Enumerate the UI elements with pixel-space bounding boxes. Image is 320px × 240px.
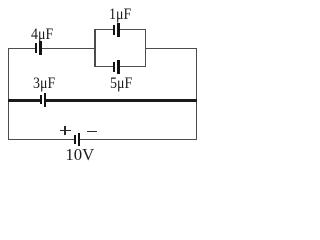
capacitor C1 4uF left plate: [35, 43, 37, 53]
wire box top branch right: [120, 29, 146, 30]
wire bottom segment left of battery: [8, 139, 74, 140]
node box left edge: [94, 29, 95, 67]
label battery plus horizontal: [60, 130, 72, 132]
capacitor C4 3uF right plate: [44, 93, 46, 107]
wire middle thick right of C4: [46, 99, 197, 102]
battery B1 right plate: [78, 133, 80, 147]
capacitor C3 5uF right plate: [117, 60, 119, 74]
wire box bottom branch right: [120, 66, 146, 67]
wire right vertical: [196, 48, 197, 141]
wire box top branch left: [94, 29, 113, 30]
battery B1 left plate: [74, 135, 76, 144]
wire top segment C1 to box: [42, 48, 95, 49]
label 1uF: [109, 7, 131, 23]
wire box bottom branch left: [94, 66, 113, 67]
label 4uF: [31, 27, 53, 43]
capacitor C4 3uF left plate: [40, 95, 42, 105]
wire bottom segment right of battery: [80, 139, 197, 140]
wire middle thick left of C4: [8, 99, 40, 102]
wire top segment box to right: [146, 48, 196, 49]
capacitor C2 1uF left plate: [113, 25, 115, 35]
label battery plus vertical: [64, 126, 66, 135]
capacitor C2 1uF right plate: [117, 23, 119, 37]
node box right edge: [145, 29, 146, 67]
capacitor C1 4uF right plate: [39, 41, 41, 55]
label battery minus: [87, 131, 97, 133]
capacitor C3 5uF left plate: [113, 62, 115, 72]
wire top segment left of C1: [8, 48, 35, 49]
label 10V: [65, 147, 94, 164]
wire left vertical: [8, 48, 9, 141]
label 3uF: [33, 76, 55, 92]
label 5uF: [110, 76, 132, 92]
